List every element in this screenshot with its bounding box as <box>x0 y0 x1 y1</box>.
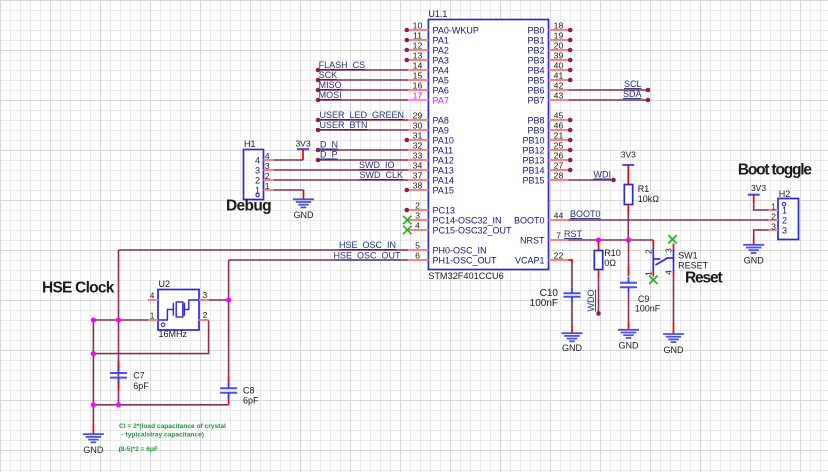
junction at left rail / pin1 row <box>91 317 96 322</box>
svg-text:30: 30 <box>413 121 423 131</box>
svg-text:27: 27 <box>554 161 564 171</box>
U1 pin 7 NRST (right, y=240) <box>520 231 569 246</box>
svg-text:6pF: 6pF <box>133 381 149 391</box>
svg-text:MISO: MISO <box>319 80 342 90</box>
U2 pin 1 stub <box>148 319 158 321</box>
U1 pin 46 PB9 (right, y=130) <box>527 121 572 136</box>
svg-text:FLASH_CS: FLASH_CS <box>319 60 366 70</box>
svg-text:PB6: PB6 <box>527 86 544 96</box>
svg-text:41: 41 <box>554 71 564 81</box>
svg-text:PA6: PA6 <box>433 86 449 96</box>
H1 pin 1 <box>255 181 274 195</box>
wire crystal pin2 down and left to rail <box>93 320 208 354</box>
wire USER_BTN to PA9 <box>316 120 408 132</box>
junction crystal pin3 / HSE_OSC_OUT rail <box>226 297 231 302</box>
ground GND below C10 <box>562 326 583 353</box>
junction C7 / bottom rail <box>116 402 121 407</box>
U1 pin 26 PB13 (right, y=160) <box>522 151 572 166</box>
svg-text:U2: U2 <box>159 279 171 289</box>
svg-text:PB3: PB3 <box>527 56 544 66</box>
U1 pin 30 PA9 (left, y=130) <box>408 121 449 136</box>
svg-text:38: 38 <box>413 181 423 191</box>
no-connect X on U1 pin 3 <box>403 216 411 224</box>
wire H2 pin3 to GND <box>754 230 769 238</box>
svg-text:1: 1 <box>771 202 776 212</box>
svg-text:C7: C7 <box>133 371 145 381</box>
svg-text:3: 3 <box>265 161 270 171</box>
svg-text:3: 3 <box>664 248 674 253</box>
SW1 right pole <box>667 244 674 278</box>
svg-text:PB12: PB12 <box>522 146 544 156</box>
U1 pin 14 PA4 (left, y=70) <box>408 61 449 76</box>
svg-text:PA15: PA15 <box>433 186 454 196</box>
U1 pin 10 PA0-WKUP (left, y=30) <box>405 21 479 36</box>
svg-text:SWD_IO: SWD_IO <box>359 160 395 170</box>
wire end dot WDO <box>596 311 601 316</box>
svg-text:PA3: PA3 <box>433 56 449 66</box>
svg-text:39: 39 <box>554 51 564 61</box>
U1 pin 13 PA3 (left, y=60) <box>405 51 449 66</box>
U1 pin 15 PA5 (left, y=80) <box>408 71 449 86</box>
wire C9 bottom to GND <box>628 293 630 321</box>
resistor R10 0ohm body <box>594 251 602 270</box>
svg-text:H2: H2 <box>779 189 791 199</box>
svg-text:PC15-OSC32_OUT: PC15-OSC32_OUT <box>433 226 513 236</box>
svg-text:GND: GND <box>619 341 640 351</box>
wire WDI from PB15 <box>569 170 616 183</box>
U1 pin 28 PB15 (right, y=180) <box>522 171 568 186</box>
svg-text:SDA: SDA <box>623 89 642 99</box>
H2 pin 2 <box>769 212 788 226</box>
capacitor C7 6pF <box>110 373 127 378</box>
svg-text:16MHz: 16MHz <box>159 329 188 339</box>
svg-text:PB2: PB2 <box>527 46 544 56</box>
H1 pin 3 <box>255 161 274 175</box>
svg-text:PA10: PA10 <box>433 136 454 146</box>
svg-text:16: 16 <box>413 81 423 91</box>
wire left rail x=93 from pin1 row down to GND <box>92 320 94 424</box>
U2 pin 3 stub <box>199 299 209 301</box>
wire bottom rail connecting GND C7 C8 <box>93 404 228 406</box>
svg-text:2: 2 <box>782 216 787 226</box>
svg-text:1: 1 <box>265 181 270 191</box>
U1 pin 2 PC13 (left, y=210) <box>405 201 456 216</box>
svg-text:PH1-OSC_OUT: PH1-OSC_OUT <box>433 256 498 266</box>
U1 pin 5 PH0-OSC_IN (left, y=250) <box>408 241 487 256</box>
svg-text:3V3: 3V3 <box>621 150 636 160</box>
H1 pin 2 <box>255 171 274 185</box>
wire D_P to PA12 <box>316 150 408 163</box>
H2 pin 1 <box>769 202 788 216</box>
svg-text:BOOT0: BOOT0 <box>514 216 545 226</box>
junction left rail / bottom rail <box>91 402 96 407</box>
svg-text:USER_LED_GREEN: USER_LED_GREEN <box>320 110 405 120</box>
svg-text:RST: RST <box>564 229 583 239</box>
U1 pin 19 PB1 (right, y=40) <box>527 31 572 46</box>
junction RST/R10 <box>596 237 601 242</box>
svg-text:Reset: Reset <box>685 269 722 286</box>
wire R1 bottom crossing BOOT0 down to RST net <box>627 205 629 215</box>
U1 pin 40 PB4 (right, y=70) <box>527 61 572 76</box>
svg-text:PC14-OSC32_IN: PC14-OSC32_IN <box>433 216 502 226</box>
no-connect X SW1 pin3 <box>668 235 676 243</box>
svg-text:3V3: 3V3 <box>295 139 310 149</box>
svg-text:PA2: PA2 <box>433 46 449 56</box>
svg-text:PA5: PA5 <box>433 76 449 86</box>
connector H1 Debug header <box>244 139 264 200</box>
svg-text:43: 43 <box>554 91 564 101</box>
ground GND below SW1 <box>663 322 684 355</box>
svg-text:PB7: PB7 <box>527 96 544 106</box>
ground GND below C9 <box>618 321 639 351</box>
U1 pin 22 VCAP1 (right, y=260) <box>515 251 569 266</box>
resistor R1 10k body <box>624 185 632 205</box>
svg-text:1: 1 <box>150 311 155 321</box>
svg-text:32: 32 <box>413 141 423 151</box>
wire SCK to PA5 <box>316 70 408 82</box>
H2 pin 3 <box>769 222 788 236</box>
wire D_N to PA11 <box>316 140 408 153</box>
svg-text:26: 26 <box>554 151 564 161</box>
U1 pin 27 PB14 (right, y=170) <box>522 161 572 176</box>
svg-text:4: 4 <box>255 156 260 166</box>
svg-text:C9: C9 <box>638 294 650 304</box>
U1 pin 32 PA11 (left, y=150) <box>408 141 453 156</box>
svg-text:2: 2 <box>265 171 270 181</box>
H2 pin1 indicator circle <box>782 203 785 206</box>
wire FLASH_CS to PA4 <box>316 60 408 72</box>
wire C8 bottom to rail <box>228 397 230 405</box>
svg-text:4: 4 <box>664 270 674 275</box>
wire R10 down to WDO stub <box>598 277 600 314</box>
svg-text:HSE_OSC_IN: HSE_OSC_IN <box>339 240 396 250</box>
svg-text:STM32F401CCU6: STM32F401CCU6 <box>428 271 504 281</box>
svg-text:Boot toggle: Boot toggle <box>738 162 812 179</box>
wire SDA from PB7 <box>569 89 651 102</box>
wire crystal pin3 to rail <box>209 299 229 301</box>
svg-text:10kΩ: 10kΩ <box>638 194 660 204</box>
wire SWD_IO from H1 pin3 to PA13 <box>274 160 408 170</box>
svg-text:PH0-OSC_IN: PH0-OSC_IN <box>433 246 487 256</box>
H1 pin 4 <box>255 151 274 165</box>
svg-text:22: 22 <box>554 251 564 261</box>
U1 pin 38 PA15 (left, y=190) <box>405 181 454 196</box>
wire VCAP1 to C10 <box>569 260 573 263</box>
U1 pin 34 PA13 (left, y=170) <box>408 161 454 176</box>
wire C9 top lead <box>628 240 630 266</box>
svg-text:4: 4 <box>415 221 420 231</box>
wire H1 pin4 to 3V3 <box>274 159 303 161</box>
svg-text:GND: GND <box>664 345 685 355</box>
svg-text:PA1: PA1 <box>433 36 449 46</box>
svg-text:PA11: PA11 <box>433 146 454 156</box>
svg-text:3: 3 <box>415 211 420 221</box>
svg-text:PB13: PB13 <box>522 156 544 166</box>
svg-text:25: 25 <box>554 141 564 151</box>
wire USER_LED_GREEN to PA8 <box>316 110 408 122</box>
U1 pin 18 PB0 (right, y=30) <box>527 21 572 36</box>
svg-text:SCK: SCK <box>319 70 338 80</box>
wire RST from NRST pin7 to SW1 <box>564 229 653 240</box>
svg-text:28: 28 <box>554 171 564 181</box>
svg-text:Cl = 2*(load capacitance of cr: Cl = 2*(load capacitance of crystal <box>119 423 226 430</box>
svg-text:45: 45 <box>554 111 564 121</box>
U1 pin 16 PA6 (left, y=90) <box>408 81 449 96</box>
junction RST/C9 <box>626 237 631 242</box>
svg-text:PB5: PB5 <box>527 76 544 86</box>
svg-text:3V3: 3V3 <box>751 183 766 193</box>
svg-text:GND: GND <box>562 343 583 353</box>
svg-text:12: 12 <box>413 41 423 51</box>
svg-text:C8: C8 <box>243 386 255 396</box>
no-connect X on U1 pin 4 <box>403 226 411 234</box>
svg-text:20: 20 <box>554 41 564 51</box>
capacitor C8 6pF <box>220 388 237 393</box>
power 3V3 at H1 <box>295 139 310 161</box>
svg-text:PA12: PA12 <box>433 156 454 166</box>
svg-text:VCAP1: VCAP1 <box>515 256 545 266</box>
junction at rail A / crystal pin1 row <box>116 317 121 322</box>
capacitor C8 6pF leads <box>228 376 230 386</box>
svg-text:2: 2 <box>203 310 208 320</box>
svg-text:PA8: PA8 <box>433 116 449 126</box>
svg-text:5: 5 <box>415 241 420 251</box>
svg-text:21: 21 <box>554 131 564 141</box>
power 3V3 at H2 <box>748 183 767 205</box>
wire HSE_OSC_OUT rail down through crystal pin3 to C8 <box>228 260 230 376</box>
svg-text:H1: H1 <box>244 139 256 149</box>
svg-text:19: 19 <box>554 31 564 41</box>
svg-text:34: 34 <box>413 161 423 171</box>
svg-text:31: 31 <box>413 131 423 141</box>
svg-text:PA7: PA7 <box>433 96 449 106</box>
svg-text:- typicalstray capacitance): - typicalstray capacitance) <box>122 431 204 438</box>
capacitor C10 100nF <box>564 293 581 297</box>
svg-text:100nF: 100nF <box>530 298 558 309</box>
op-amp U1 main MCU body STM32F401CCU6 <box>428 20 548 270</box>
svg-text:100nF: 100nF <box>635 304 661 314</box>
resistor R10 0ohm leads <box>598 241 600 251</box>
svg-text:Debug: Debug <box>226 198 271 215</box>
wire C10 bottom to GND <box>571 303 573 326</box>
U1 pin 42 PB6 (right, y=90) <box>527 81 568 96</box>
svg-text:4: 4 <box>150 291 155 301</box>
svg-text:1: 1 <box>643 271 653 276</box>
U1 pin 25 PB12 (right, y=150) <box>522 141 572 156</box>
U1 pin 37 PA14 (left, y=180) <box>408 171 454 186</box>
U1 pin 39 PB3 (right, y=60) <box>527 51 572 66</box>
U1 pin 31 PA10 (left, y=140) <box>405 131 454 146</box>
svg-text:SW1: SW1 <box>678 250 698 260</box>
svg-text:D_N: D_N <box>320 140 338 150</box>
U1 pin 12 PA2 (left, y=50) <box>405 41 449 56</box>
wire SW1 pin4 to GND <box>673 278 675 323</box>
svg-text:2: 2 <box>771 212 776 222</box>
svg-text:BOOT0: BOOT0 <box>570 209 601 219</box>
no-connect X SW1 pin1 <box>649 276 657 284</box>
svg-text:18: 18 <box>554 21 564 31</box>
svg-text:GND: GND <box>294 210 315 220</box>
U1 pin 20 PB2 (right, y=50) <box>527 41 572 56</box>
svg-text:PA0-WKUP: PA0-WKUP <box>433 26 479 36</box>
svg-text:3: 3 <box>771 222 776 232</box>
svg-text:3: 3 <box>782 226 787 236</box>
svg-text:3: 3 <box>202 290 207 300</box>
svg-text:PB9: PB9 <box>527 126 544 136</box>
svg-text:6: 6 <box>415 251 420 261</box>
svg-text:PB15: PB15 <box>522 176 544 186</box>
svg-text:0Ω: 0Ω <box>604 258 616 268</box>
svg-text:46: 46 <box>554 121 564 131</box>
svg-text:14: 14 <box>413 61 423 71</box>
svg-text:PB10: PB10 <box>522 136 544 146</box>
svg-text:PA4: PA4 <box>433 66 449 76</box>
wire MISO to PA6 <box>316 80 408 92</box>
svg-text:4: 4 <box>265 151 270 161</box>
svg-text:10: 10 <box>413 21 423 31</box>
U1 pin 17 PA7 (left, y=100) <box>408 91 449 106</box>
svg-text:PB1: PB1 <box>527 36 544 46</box>
capacitor C7 6pF leads <box>118 361 120 371</box>
svg-text:1: 1 <box>782 206 787 216</box>
svg-text:SWD_CLK: SWD_CLK <box>359 170 403 180</box>
U1 pin 41 PB5 (right, y=80) <box>527 71 572 86</box>
svg-text:R10: R10 <box>604 248 621 258</box>
svg-text:MOSI: MOSI <box>319 90 342 100</box>
U1 pin 6 PH1-OSC_OUT (left, y=260) <box>408 251 497 266</box>
svg-text:PA13: PA13 <box>433 166 454 176</box>
capacitor C9 100nF <box>620 283 637 288</box>
svg-text:U1.1: U1.1 <box>428 9 447 19</box>
U1 pin 45 PB8 (right, y=120) <box>527 111 572 126</box>
svg-text:17: 17 <box>413 91 423 101</box>
svg-text:40: 40 <box>554 61 564 71</box>
ground GND of HSE section <box>83 424 104 455</box>
wire H1 pin1 to GND <box>274 189 304 191</box>
svg-text:NRST: NRST <box>520 236 545 246</box>
svg-text:33: 33 <box>413 151 423 161</box>
U1 pin 33 PA12 (left, y=160) <box>408 151 454 166</box>
svg-text:PC13: PC13 <box>433 206 456 216</box>
svg-text:HSE Clock: HSE Clock <box>42 280 115 297</box>
svg-text:PB4: PB4 <box>527 66 544 76</box>
U2 pin 4 stub <box>148 299 158 301</box>
svg-text:3: 3 <box>255 166 260 176</box>
svg-text:6pF: 6pF <box>243 395 259 405</box>
svg-text:PB8: PB8 <box>527 116 544 126</box>
SW1 actuator diagonal <box>656 258 668 265</box>
svg-text:7: 7 <box>556 231 561 241</box>
power 3V3 above R1 <box>621 150 636 185</box>
svg-text:PB0: PB0 <box>527 26 544 36</box>
U1 pin 3 PC14-OSC32_IN (left, y=220) <box>408 211 502 226</box>
svg-text:GND: GND <box>83 445 104 455</box>
crystal U2 16MHz body <box>158 290 199 331</box>
U1 pin 29 PA8 (left, y=120) <box>408 111 449 126</box>
svg-text:15: 15 <box>413 71 423 81</box>
U1 pin 21 PB10 (right, y=140) <box>522 131 572 146</box>
connector H2 boot header <box>778 189 799 240</box>
wire SCL from PB6 <box>569 79 651 92</box>
H1 pin1 indicator circle <box>256 193 259 196</box>
transistor SW1 reset pushbutton left pole <box>653 240 660 277</box>
wire MOSI to PA7 <box>316 90 408 102</box>
svg-text:37: 37 <box>413 171 423 181</box>
junction at left rail / pin2 return <box>91 351 96 356</box>
svg-text:WDI: WDI <box>594 170 612 180</box>
wire crystal pin1 row <box>93 319 148 321</box>
svg-text:USER_BTN: USER_BTN <box>320 120 368 130</box>
svg-text:29: 29 <box>413 111 423 121</box>
wire HSE_OSC_IN vertical rail down to crystal pin1 and C7 <box>118 250 120 405</box>
svg-text:R1: R1 <box>638 184 650 194</box>
svg-text:PB14: PB14 <box>522 166 544 176</box>
svg-text:2: 2 <box>415 201 420 211</box>
wire 3V3 to H2 pin1 <box>754 205 769 210</box>
svg-text:SCL: SCL <box>624 79 642 89</box>
svg-text:PA14: PA14 <box>433 176 454 186</box>
svg-text:WDO: WDO <box>586 290 596 312</box>
wire HSE_OSC_IN to PH0-OSC_IN <box>119 240 409 250</box>
svg-text:D_P: D_P <box>320 150 338 160</box>
ground GND below H1 <box>293 190 314 220</box>
wire BOOT0 from pin44 to H2 pin2 <box>569 209 769 220</box>
svg-text:44: 44 <box>554 211 564 221</box>
svg-text:2: 2 <box>643 249 653 254</box>
ground GND below H2 <box>743 238 764 266</box>
wire HSE_OSC_OUT to PH1-OSC_OUT <box>229 251 408 261</box>
svg-text:HSE_OSC_OUT: HSE_OSC_OUT <box>333 251 401 261</box>
U1 pin 43 PB7 (right, y=100) <box>527 91 568 106</box>
svg-text:PA9: PA9 <box>433 126 449 136</box>
U1 pin 44 BOOT0 (right, y=220) <box>514 211 569 226</box>
svg-text:42: 42 <box>554 81 564 91</box>
svg-text:GND: GND <box>744 256 765 266</box>
svg-text:2: 2 <box>255 176 260 186</box>
svg-text:(8-5)*2 = 6pF: (8-5)*2 = 6pF <box>119 446 158 453</box>
U1 pin 4 PC15-OSC32_OUT (left, y=230) <box>408 221 512 236</box>
svg-text:11: 11 <box>413 31 422 41</box>
U1 pin 11 PA1 (left, y=40) <box>405 31 449 46</box>
U2 pin 2 stub <box>199 319 209 321</box>
wire SWD_CLK from H1 pin2 to PA14 <box>274 170 408 180</box>
svg-text:13: 13 <box>413 51 423 61</box>
